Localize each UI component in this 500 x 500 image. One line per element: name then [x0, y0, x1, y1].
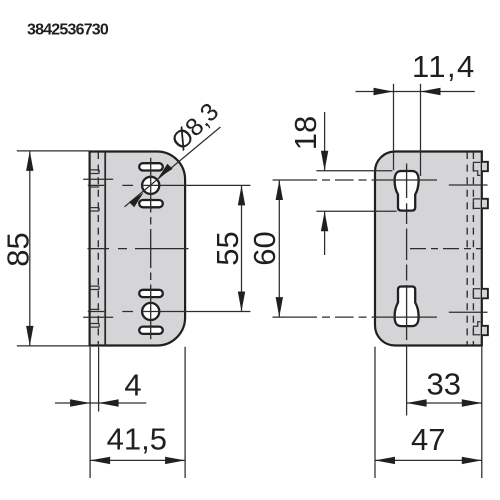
right view tab 1: [482, 162, 488, 171]
dim 85 extension top: [17, 150, 89, 152]
svg-text:Ø8,3: Ø8,3: [166, 98, 224, 156]
left view hole2 centerline: [88, 311, 251, 313]
right view tab 3: [482, 289, 488, 299]
dim 18 line upper: [324, 112, 326, 171]
right view hidden dashed line b: [472, 152, 474, 345]
dim 11,4 arrow right: [421, 88, 441, 95]
dim 11,4 arrow left: [374, 88, 394, 95]
dim 18 arrow upper: [321, 151, 328, 171]
right view hook profile row 1: [473, 162, 480, 175]
left view slot 2b: [139, 327, 163, 334]
right view middle centerline: [410, 248, 481, 250]
svg-text:60: 60: [247, 231, 282, 265]
left view vertical centerline: [150, 158, 152, 339]
dim 47 extension left: [374, 347, 376, 478]
right view tab 4: [482, 326, 488, 335]
dim 18 line lower: [324, 211, 326, 255]
right view hook profile row 3: [473, 289, 480, 299]
left view: bracket side outline: [90, 152, 186, 346]
right view hook profile row 2: [473, 199, 480, 209]
keyhole 2 horizontal centerline (60 extension bottom): [273, 316, 438, 318]
dim 47 arrow right: [462, 457, 482, 464]
keyhole1 centerline stub across left flange: [83, 178, 113, 180]
left view slot 2a: [139, 290, 163, 297]
right view hook profile row 4: [473, 322, 480, 335]
dim 47 extension right: [481, 347, 483, 478]
dim 60 line: [278, 180, 280, 317]
left view hook tick at hole1 row: [90, 186, 100, 188]
dim 55 arrow top: [238, 185, 245, 205]
dim 85 extension bottom: [17, 345, 89, 347]
left view hook tick row 4: [90, 324, 100, 328]
dim 4 extension left: [89, 347, 91, 478]
dim 85 line: [29, 151, 31, 346]
keyhole vertical centerline: [406, 164, 408, 341]
leader arrowhead lower: [129, 193, 144, 208]
right view hook reference line upper: [449, 184, 488, 186]
right view hidden dashed line a: [466, 152, 468, 345]
dim 11,4 extension right: [420, 84, 422, 176]
dim 41,5 extension right: [184, 347, 186, 478]
left view hook tick row 1: [90, 170, 100, 174]
dim 4 arrow right: [99, 399, 119, 406]
svg-text:4: 4: [124, 367, 141, 402]
keyhole2 centerline stub across left flange: [83, 316, 113, 318]
svg-text:33: 33: [427, 366, 461, 401]
left view hook tick at hole2 row: [90, 308, 100, 310]
right view: bracket front outline: [375, 152, 482, 346]
dim 47 line: [375, 459, 482, 461]
dim 55 line: [241, 185, 243, 311]
dim 11,4 extension left: [393, 84, 395, 170]
keyhole slot 1: [395, 171, 419, 211]
dim 33 line: [407, 402, 482, 404]
dim 41,5 line: [90, 459, 185, 461]
svg-text:47: 47: [411, 422, 445, 457]
dim 41,5 arrow left: [90, 457, 110, 464]
left view fold line: [104, 152, 106, 345]
keyhole slot 2 (mirrored): [395, 287, 419, 327]
dim 33 arrow right: [462, 399, 482, 406]
left view hook tick row 2: [90, 208, 100, 211]
left view hook tick row 3: [90, 286, 100, 289]
dim 4 extension right: [98, 347, 100, 412]
svg-text:11,4: 11,4: [412, 49, 476, 84]
dim 4 arrow left: [70, 399, 90, 406]
svg-text:41,5: 41,5: [107, 421, 167, 456]
left view middle centerline: [88, 248, 189, 250]
dim 41,5 arrow right: [165, 457, 185, 464]
dim 47 arrow left: [375, 457, 395, 464]
left view hole1 centerline (55/60 extension): [88, 184, 251, 186]
right view hook reference line lower: [449, 311, 488, 313]
dim 85 arrow top: [26, 151, 33, 171]
left view hole circle 2: [142, 303, 159, 320]
dim 18 extension upper: [316, 170, 392, 172]
left view hole circle 1: [142, 177, 159, 194]
svg-text:55: 55: [210, 231, 245, 265]
dim 85 arrow bottom: [26, 326, 33, 346]
svg-text:18: 18: [288, 116, 323, 150]
left view slot 1b: [139, 200, 163, 207]
leader arrowhead upper: [158, 164, 173, 179]
dim 18 arrow lower: [321, 211, 328, 231]
diameter leader line: [125, 127, 221, 207]
keyhole vertical extension to 33 dim: [406, 346, 408, 416]
keyhole 1 horizontal centerline (60 extension top): [273, 179, 438, 181]
dim 33 arrow left: [407, 399, 427, 406]
dim 60 arrow top: [276, 180, 283, 200]
right view tab 2: [482, 199, 488, 209]
left view slot 1a: [139, 163, 163, 170]
dim 4 line: [55, 402, 146, 404]
left view hidden edge dashed line: [97, 152, 99, 345]
dim 55 arrow bottom: [238, 292, 245, 312]
svg-text:85: 85: [0, 232, 35, 266]
dim 60 arrow bottom: [276, 297, 283, 317]
dim 18 extension lower: [316, 210, 396, 212]
dim 11,4 line: [356, 91, 475, 93]
svg-text:3842536730: 3842536730: [27, 22, 109, 39]
